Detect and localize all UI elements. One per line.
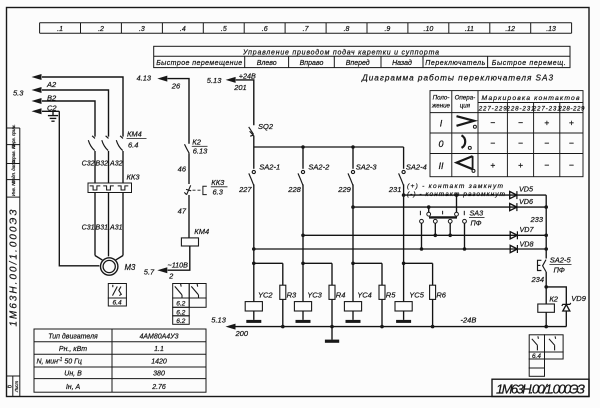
svg-text:228: 228 [287, 185, 301, 194]
svg-text:SA2-3: SA2-3 [356, 162, 378, 171]
svg-text:.1: .1 [57, 26, 63, 33]
KK3 linkage bracket [203, 186, 207, 194]
svg-text:-24В: -24В [461, 316, 477, 325]
ruler column numbers [57, 26, 556, 33]
switch contact SA2-4 [399, 170, 406, 185]
wire A31 [122, 193, 124, 256]
wire 234 [545, 272, 547, 304]
contactor KM4 main contact phase B [102, 136, 109, 151]
svg-text:+: + [518, 160, 523, 170]
svg-text:Тип двигателя: Тип двигателя [48, 332, 98, 340]
switch SA3 movable bar [429, 216, 457, 218]
svg-text:А32: А32 [109, 161, 123, 168]
SA3 lower pin 3 [448, 219, 452, 223]
wire SQ2 to rail [253, 136, 255, 169]
motor M3 [101, 258, 118, 275]
diode VD6 [510, 203, 517, 211]
svg-text:Назад: Назад [392, 59, 412, 67]
svg-text:228-231: 228-231 [506, 105, 535, 112]
arrow to B2 [32, 87, 42, 93]
arrow wire 26 [157, 76, 167, 82]
svg-text:Вправо: Вправо [300, 60, 324, 67]
svg-text:Маркировка контактов: Маркировка контактов [482, 95, 580, 102]
svg-text:233: 233 [529, 215, 543, 224]
svg-text:С31: С31 [82, 225, 95, 232]
chassis ground stub on rail [331, 327, 333, 340]
feed rail after SQ2 [254, 146, 404, 148]
coil KM4 [181, 238, 198, 246]
svg-text:Iн, А: Iн, А [66, 384, 81, 391]
resistor R3 [280, 285, 286, 299]
switch contact SA2-3 [348, 170, 355, 185]
svg-text:5.3: 5.3 [13, 89, 24, 98]
svg-text:С32: С32 [82, 161, 95, 168]
svg-text:Uн, В: Uн, В [64, 371, 82, 378]
svg-text:КМ4: КМ4 [194, 227, 209, 236]
svg-text:228-229: 228-229 [557, 105, 585, 112]
wire 2 from KM4 coil [168, 246, 190, 270]
wire B31 [108, 193, 110, 257]
svg-text:2.76: 2.76 [151, 384, 166, 391]
svg-text:ПФ: ПФ [471, 219, 482, 228]
wire drop SA2-2 [302, 147, 304, 169]
branch YC5 R6 [402, 262, 406, 266]
svg-text:227: 227 [238, 185, 252, 194]
SA3 position ticks [420, 211, 464, 215]
arrow wire 201 [226, 77, 236, 83]
SA3 lower pin 4 [463, 219, 467, 223]
KK3 aux contact box [108, 284, 126, 299]
svg-text:1М63Н.00/1.000ЭЗ: 1М63Н.00/1.000ЭЗ [9, 210, 20, 327]
node 233 vertical [545, 195, 547, 258]
svg-text:ПФ: ПФ [554, 265, 565, 274]
svg-text:6.13: 6.13 [193, 147, 208, 156]
svg-text:+: + [490, 160, 495, 170]
left stamp strip [7, 128, 20, 397]
svg-text:VD7: VD7 [520, 225, 535, 234]
svg-text:А2: А2 [46, 80, 57, 89]
resistor R6 [430, 285, 436, 299]
bus 227 to VD8 [254, 248, 546, 250]
svg-text:26: 26 [171, 82, 181, 91]
svg-text:6.2: 6.2 [176, 318, 185, 325]
svg-text:1.1: 1.1 [154, 346, 164, 353]
svg-text:R4: R4 [336, 291, 346, 300]
switch contact SA2-5 [538, 260, 547, 272]
svg-text:КМ4: КМ4 [127, 129, 142, 138]
K2 ref empty right cell [545, 352, 564, 359]
arrow to A2 [32, 74, 42, 80]
svg-text:К2: К2 [549, 295, 558, 304]
svg-text:Поло-: Поло- [433, 95, 450, 102]
svg-text:.11: .11 [465, 26, 474, 33]
resistor R4 [329, 285, 335, 299]
KK3 heater elements [90, 186, 129, 190]
svg-text:Быстрое перемещ.: Быстрое перемещ. [492, 60, 566, 67]
function header table [154, 46, 570, 67]
wire C31 [94, 193, 96, 256]
wire 227 [253, 184, 255, 263]
svg-text:(+) - контакт замкнут: (+) - контакт замкнут [407, 183, 504, 190]
svg-text:Управление приводом подач каре: Управление приводом подач каретки и супп… [242, 48, 439, 56]
svg-text:6.4: 6.4 [113, 300, 122, 307]
contact K2 [185, 144, 190, 153]
svg-text:+: + [569, 118, 574, 128]
svg-text:6.3: 6.3 [213, 188, 224, 197]
svg-text:−: − [569, 138, 574, 148]
svg-text:SQ2: SQ2 [258, 122, 274, 131]
wire 228 [302, 184, 304, 263]
wire A32 [122, 151, 124, 183]
KM4 ref cell 6.2 row1 [173, 298, 190, 307]
junction rail SA2-2 [301, 145, 305, 149]
SA3 upper pin a [427, 212, 431, 216]
wire 47 [188, 195, 190, 238]
wire C32 [94, 151, 96, 183]
svg-text:R3: R3 [287, 291, 297, 300]
KM4 ref cell 6.2 row2 [173, 307, 190, 316]
svg-text:+: + [544, 118, 549, 128]
KM4 ref empty cell [189, 298, 206, 307]
svg-text:Переключатель: Переключатель [425, 60, 485, 67]
wire drop SA2-4 [403, 147, 405, 169]
ground symbol [48, 111, 58, 121]
svg-text:6.4: 6.4 [128, 141, 138, 150]
SA3 table contact states [490, 118, 574, 171]
K2 ref cell 6.4 [529, 352, 544, 359]
svg-text:231: 231 [388, 185, 402, 194]
svg-text:200: 200 [235, 329, 249, 338]
svg-text:YC3: YC3 [307, 291, 322, 300]
SA3 position I row [438, 118, 444, 171]
SA3 state table [430, 91, 583, 177]
switch contact SA2-1 [249, 170, 256, 185]
svg-text:Подп. дата: Подп. дата [11, 159, 16, 183]
svg-text:.13: .13 [546, 26, 556, 33]
SA3 operation glyph row 0 [462, 135, 472, 149]
svg-text:SA2-1: SA2-1 [259, 162, 280, 171]
svg-text:5.7: 5.7 [144, 267, 155, 276]
wire C2 [42, 101, 95, 137]
svg-text:Рн., кВт: Рн., кВт [59, 346, 87, 353]
clutch coil YC5 [403, 263, 405, 301]
svg-text:Влево: Влево [257, 60, 277, 67]
svg-text:VD9: VD9 [571, 294, 586, 303]
SA3 operation glyph row I [457, 116, 477, 128]
svg-text:.2: .2 [98, 26, 104, 33]
svg-text:В32: В32 [96, 161, 109, 168]
bus 231 to VD5 [404, 194, 547, 196]
title block [492, 379, 589, 396]
svg-text:229: 229 [337, 185, 351, 194]
svg-text:46: 46 [178, 164, 187, 173]
clutch coil YC3 [302, 263, 304, 301]
svg-text:ция: ция [460, 103, 471, 110]
branch YC2 R3 [252, 262, 256, 266]
switch contact SA2-2 [298, 170, 305, 185]
svg-text:47: 47 [178, 206, 187, 215]
K2 aux contact box 1 [529, 335, 544, 352]
rail junction dots [281, 325, 285, 329]
svg-text:.10: .10 [424, 26, 434, 33]
svg-text:~110В: ~110В [168, 260, 189, 269]
svg-text:R5: R5 [386, 291, 396, 300]
svg-text:R6: R6 [436, 291, 446, 300]
svg-text:КК3: КК3 [211, 178, 225, 187]
svg-text:VD8: VD8 [520, 239, 534, 248]
wire 201 +24V [236, 80, 254, 125]
KM4 aux contact box 1 [173, 284, 190, 299]
svg-text:4.13: 4.13 [137, 74, 152, 83]
wire A2 [42, 77, 123, 137]
svg-text:Инв. №: Инв. № [11, 181, 16, 196]
thermal relay KK3 heater box [88, 183, 132, 193]
svg-text:0: 0 [438, 139, 443, 149]
bus 228 to VD7 [303, 234, 546, 236]
svg-text:КК3: КК3 [127, 172, 141, 181]
SA3 operation glyph row II [457, 156, 475, 172]
arrow wire 200 [226, 324, 236, 330]
svg-text:А31: А31 [109, 225, 123, 232]
svg-text:−: − [569, 160, 574, 170]
diode VD9 wire [546, 287, 566, 304]
branch YC3 R4 [301, 262, 305, 266]
bus 229 to VD6 [353, 206, 546, 208]
svg-text:201: 201 [233, 83, 247, 92]
KK3 linkage dashes [193, 189, 202, 191]
diode VD9 [562, 303, 571, 311]
svg-text:1М63Н.00/1.000ЭЗ: 1М63Н.00/1.000ЭЗ [496, 382, 585, 397]
svg-text:234: 234 [530, 275, 544, 284]
svg-text:−: − [544, 138, 549, 148]
svg-text:Лист: Лист [14, 381, 19, 394]
svg-text:Опера-: Опера- [455, 95, 476, 102]
ruler ticks [39, 23, 41, 34]
clutch coil YC2 [253, 263, 255, 301]
svg-text:В31: В31 [96, 225, 109, 232]
PE wire to motor frame [59, 111, 99, 265]
contactor KM4 main contact phase C [88, 136, 95, 151]
ruler band top line [40, 22, 572, 24]
SA3 lower pin 1 [420, 219, 424, 223]
svg-text:−: − [544, 160, 549, 170]
svg-text:SA2-2: SA2-2 [308, 162, 330, 171]
svg-text:VD5: VD5 [519, 185, 534, 194]
svg-text:+24В: +24В [239, 71, 256, 80]
limit switch SQ2 [249, 127, 254, 136]
svg-text:.5: .5 [221, 26, 227, 33]
svg-text:М3: М3 [125, 263, 136, 272]
svg-text:380: 380 [153, 371, 165, 378]
K2 ref empty cell row3 [529, 368, 544, 376]
thermal contact KK3 [184, 185, 191, 194]
wires converge to motor [95, 256, 102, 261]
svg-text:II: II [438, 161, 444, 171]
relay coil K2 [538, 304, 555, 312]
wire B32 [108, 151, 110, 183]
svg-text:1420: 1420 [151, 359, 167, 366]
diode VD7 [510, 231, 517, 239]
junction rail SA2-3 [351, 145, 355, 149]
K2 ref empty cell row2 [529, 359, 544, 368]
wire 26 [168, 79, 190, 144]
junction K2 VD9 [544, 285, 548, 289]
svg-text:.12: .12 [505, 26, 515, 33]
svg-text:.6: .6 [262, 26, 268, 33]
SA3 lower pin 2 [433, 219, 437, 223]
svg-text:−: − [490, 138, 495, 148]
wire 231 [403, 184, 405, 263]
wire 229 [352, 184, 354, 263]
svg-text:YC2: YC2 [258, 291, 273, 300]
SA3 upper pin b [455, 212, 459, 216]
motor data table [34, 329, 206, 392]
diode VD8 [510, 245, 517, 253]
svg-text:6.2: 6.2 [176, 309, 185, 316]
svg-text:YC5: YC5 [409, 291, 424, 300]
svg-text:К2: К2 [192, 137, 201, 146]
svg-text:.8: .8 [344, 26, 350, 33]
wire PE [42, 110, 59, 112]
K2 aux contact box 2 [545, 335, 564, 352]
svg-text:4АМ80А4У3: 4АМ80А4У3 [139, 333, 178, 340]
svg-text:2: 2 [168, 271, 173, 280]
svg-text:−: − [518, 118, 523, 128]
arrow to PE [32, 108, 42, 114]
svg-text:SA2-5: SA2-5 [550, 255, 572, 264]
branch YC4 R5 [351, 262, 355, 266]
svg-text:.9: .9 [384, 26, 390, 33]
svg-text:−: − [490, 118, 495, 128]
wire B2 [42, 90, 109, 137]
rail 200 minus 24V [235, 326, 567, 328]
svg-text:227-231: 227-231 [532, 105, 561, 112]
ruler band bottom line [40, 32, 572, 34]
svg-text:жение: жение [431, 103, 451, 110]
svg-text:6.2: 6.2 [176, 301, 185, 308]
contactor KM4 main contact phase A [116, 136, 123, 151]
resistor R5 [379, 285, 385, 299]
wire 46 [188, 153, 190, 184]
clutch coil YC4 [352, 263, 354, 301]
svg-text:Вперед: Вперед [346, 59, 370, 67]
svg-text:−: − [518, 138, 523, 148]
diode VD5 [510, 191, 517, 199]
KM4 aux contact box 2 [189, 284, 206, 299]
svg-text:Быстрое перемещение: Быстрое перемещение [156, 60, 242, 67]
svg-text:.4: .4 [180, 26, 186, 33]
svg-text:SA2-4: SA2-4 [406, 162, 427, 171]
KK3 aux ref cell 6.4 [108, 298, 126, 306]
KM4 ref cell 6.2 row3 [173, 316, 190, 325]
svg-text:Диаграмма работы переключателя: Диаграмма работы переключателя SA3 [361, 73, 553, 82]
svg-text:227-229: 227-229 [478, 105, 508, 112]
wire drop SA2-3 [352, 147, 354, 169]
svg-text:VD6: VD6 [519, 197, 533, 206]
arrow to 110V [157, 267, 167, 273]
svg-text:SA3: SA3 [470, 209, 484, 218]
svg-text:5.13: 5.13 [211, 315, 226, 324]
svg-text:YC4: YC4 [357, 291, 372, 300]
svg-text:5.13: 5.13 [207, 76, 222, 85]
svg-text:.3: .3 [139, 26, 145, 33]
arrow to C2 [32, 98, 42, 104]
